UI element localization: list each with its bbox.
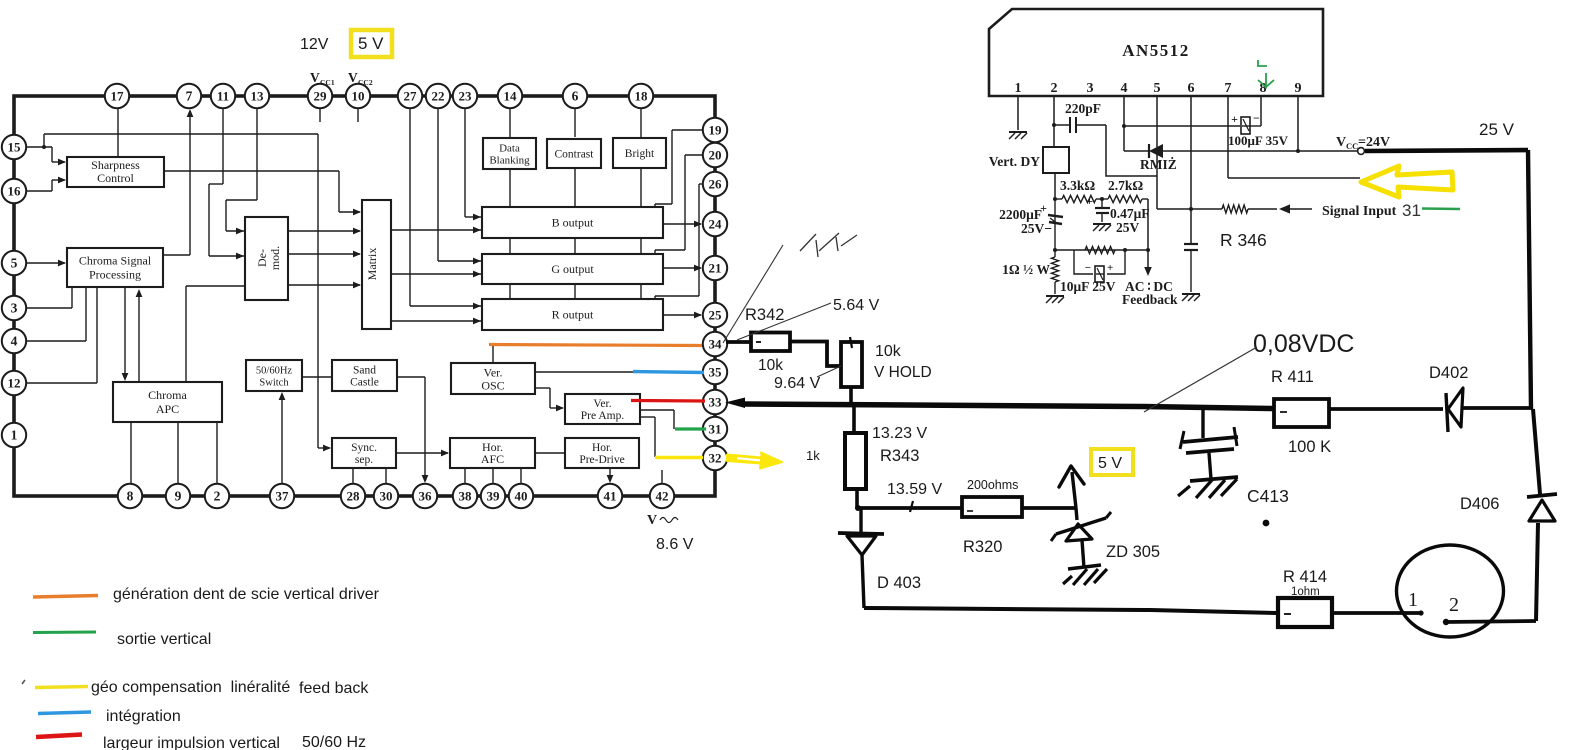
IC pin 15 (2, 135, 26, 159)
svg-text:+: + (1107, 262, 1113, 274)
svg-text:41: 41 (604, 488, 617, 503)
svg-text:100μF 35V: 100μF 35V (1228, 133, 1289, 148)
op-amp IC AN5512 outline (989, 9, 1323, 96)
svg-text:3: 3 (1087, 81, 1094, 96)
block Matrix (362, 200, 391, 329)
svg-text:R 411: R 411 (1271, 368, 1314, 386)
svg-text:5.64 V: 5.64 V (833, 297, 880, 314)
wire pin4 to 100uF (1124, 125, 1240, 127)
svg-text:Processing: Processing (89, 268, 141, 282)
svg-text:R343: R343 (880, 447, 919, 465)
wire pin22 to G output (438, 107, 481, 264)
wire bottom rail to R414 (864, 608, 1277, 613)
svg-text:35: 35 (709, 364, 723, 379)
svg-text:Blanking: Blanking (489, 155, 530, 167)
block R output (482, 299, 663, 330)
IC pin 34 (703, 332, 727, 356)
wire AN pin7 down (1227, 96, 1229, 178)
svg-text:V: V (348, 70, 358, 85)
svg-text:42: 42 (656, 488, 669, 503)
svg-text:200ohms: 200ohms (967, 478, 1018, 492)
svg-text:36: 36 (419, 488, 433, 503)
svg-text:Ver.: Ver. (593, 398, 611, 410)
wire Switch to Sand Castle (302, 376, 332, 378)
wire pin6 to Contrast (574, 107, 576, 137)
wire Sync sep to Hor AFC (396, 450, 449, 457)
marker red pulse-width line pin33 (631, 399, 705, 403)
wire Sand Castle to pin36 (397, 377, 428, 483)
highlight box 5V top (351, 30, 392, 57)
IC pin 16 (2, 179, 26, 203)
svg-text:Bright: Bright (625, 148, 655, 160)
IC pin 10 (346, 84, 370, 108)
block Hor Pre-Drive (565, 438, 639, 468)
IC pin 41 (598, 484, 622, 508)
legend red line (36, 735, 82, 738)
svg-text:Pre-Drive: Pre-Drive (579, 454, 624, 466)
ground AN pin1 (1009, 131, 1027, 133)
diode D403 (838, 508, 884, 608)
block Data Blanking (483, 138, 536, 169)
IC pin 36 (413, 484, 437, 508)
block 50/60Hz Switch (246, 360, 302, 391)
svg-text:ZD 305: ZD 305 (1106, 543, 1160, 561)
potentiometer 10k V HOLD (841, 342, 862, 387)
wire AN pin4 down (1123, 96, 1125, 151)
svg-text:+: + (1231, 112, 1238, 126)
block Ver Pre Amp (565, 394, 640, 424)
wire Chroma APC to De-mod (186, 286, 245, 382)
svg-text:1: 1 (1015, 81, 1022, 96)
wire 220pF to signal node (1106, 125, 1157, 176)
wire AN pin2 down (1053, 96, 1055, 147)
marker blue integration line pin35 (633, 372, 704, 373)
svg-text:largeur impulsion vertical: largeur impulsion vertical (103, 735, 280, 750)
block Bright (613, 138, 666, 168)
svg-text:D402: D402 (1429, 364, 1468, 382)
svg-text:Castle: Castle (350, 377, 379, 389)
svg-text:1Ω ½ W: 1Ω ½ W (1002, 262, 1050, 277)
svg-text:Sharpness: Sharpness (91, 158, 140, 172)
svg-text:12V: 12V (300, 36, 329, 53)
resistor R346 zigzag (1222, 205, 1248, 213)
IC pin 13 (245, 84, 269, 108)
IC pin 24 (703, 212, 727, 236)
IC pin 31 (703, 417, 727, 441)
svg-text:22: 22 (432, 88, 445, 103)
wire CSP to Chroma APC down (122, 287, 129, 381)
wire AN pin5 down (1156, 96, 1158, 209)
svg-text:V HOLD: V HOLD (874, 364, 932, 381)
wire pin14 to Data Blanking (509, 107, 511, 137)
svg-text:25 V: 25 V (1479, 120, 1515, 139)
svg-text:38: 38 (459, 488, 473, 503)
svg-text:50/60Hz: 50/60Hz (256, 366, 293, 377)
svg-text:4: 4 (1121, 81, 1128, 96)
svg-text:20: 20 (709, 147, 722, 162)
svg-text:1: 1 (11, 427, 18, 442)
ink dot artifact (1263, 520, 1270, 527)
svg-text:Chroma Signal: Chroma Signal (79, 254, 152, 268)
legend tick (22, 680, 25, 684)
IC pin 17 (105, 84, 129, 108)
wire pin12 to CSP (25, 287, 97, 383)
wire Chroma APC to CSP up (136, 289, 143, 382)
scribble marks (800, 233, 857, 257)
wire Matrix to G output (391, 271, 481, 278)
svg-text:27: 27 (404, 88, 418, 103)
IC pin 35 (703, 360, 727, 384)
wire pin19 to B output (655, 130, 704, 208)
svg-text:Control: Control (97, 171, 134, 185)
svg-text:RMIŻ: RMIŻ (1140, 157, 1177, 172)
svg-text:5: 5 (11, 255, 18, 270)
svg-text:8: 8 (127, 488, 134, 503)
IC pin 14 (498, 84, 522, 108)
svg-text:3.3kΩ: 3.3kΩ (1060, 178, 1095, 193)
svg-text:V: V (1336, 135, 1346, 150)
capacitor 100uF (1231, 111, 1260, 134)
legend green line (33, 631, 96, 635)
wire pin37 to 50/60Hz Switch (279, 392, 286, 485)
IC pin 39 (481, 484, 505, 508)
svg-text:Ver.: Ver. (484, 366, 503, 380)
wire AN pin9 down (1297, 96, 1299, 151)
svg-text:19: 19 (709, 122, 723, 137)
svg-text:R output: R output (552, 308, 594, 322)
highlight box 5V at ZD305 (1091, 449, 1133, 475)
svg-text:9: 9 (175, 488, 182, 503)
resistor feedback (1085, 246, 1115, 253)
wire Matrix to R output (391, 318, 481, 325)
capacitor 10uF (1085, 262, 1114, 282)
svg-text:100 K: 100 K (1288, 438, 1331, 456)
svg-text:2: 2 (1449, 594, 1459, 616)
wire V-HOLD to node 33 line (849, 387, 853, 407)
svg-text:D406: D406 (1460, 495, 1499, 513)
stub pin10 (357, 107, 359, 122)
svg-text:50/60 Hz: 50/60 Hz (302, 734, 366, 750)
wire pin4 to CSP (25, 287, 86, 341)
wire junction to R320 (857, 506, 962, 510)
svg-text:D 403: D 403 (877, 574, 921, 592)
wire R output to pin25 (663, 312, 702, 319)
IC pin 32 (703, 446, 727, 470)
IC pin 25 (703, 303, 727, 327)
svg-text:13.23 V: 13.23 V (872, 425, 927, 442)
pointer line 5.64V to pin34 (737, 303, 831, 340)
resistor 2.7k (1108, 195, 1142, 202)
yellow arrow left big (1361, 166, 1453, 197)
svg-text:Vert. DY: Vert. DY (989, 154, 1040, 169)
svg-text:Pre Amp.: Pre Amp. (581, 410, 625, 422)
IC pin 27 (398, 84, 422, 108)
wire D402 to right rail (1462, 406, 1533, 410)
wire Ver Pre Amp to pin31 (640, 410, 674, 429)
marker orange sawtooth line pin34 (489, 345, 702, 346)
svg-text:Switch: Switch (259, 378, 289, 389)
block Sand Castle (332, 360, 397, 391)
wire AFC to Hor Pre-Drive (535, 452, 565, 454)
svg-text:8.6 V: 8.6 V (656, 536, 694, 553)
wire Ver Pre Amp to pin33 (640, 400, 704, 402)
IC pin 20 (703, 143, 727, 167)
svg-text:+: + (1086, 194, 1093, 208)
block Chroma APC (113, 382, 222, 422)
IC pin 23 (453, 84, 477, 108)
svg-text:Data: Data (499, 143, 520, 155)
stub Ver OSC top (492, 345, 494, 363)
IC pin 6 (563, 84, 587, 108)
IC pin 28 (341, 484, 365, 508)
svg-text:14: 14 (504, 88, 518, 103)
wire R342 to V-HOLD pot (790, 342, 841, 367)
svg-text:sep.: sep. (355, 454, 373, 466)
green scribble at pin8 (1258, 60, 1274, 87)
wire long top rail to Sync sep (44, 134, 331, 451)
resistor R411 (1274, 399, 1329, 427)
IC pin 3 (2, 296, 26, 320)
wire pin3 to CSP (25, 287, 72, 308)
wire AFC to pin39 (492, 468, 494, 485)
svg-text:G output: G output (551, 262, 594, 276)
wire pin23 to B output (465, 107, 481, 220)
wire pin15 to Sharpness (52, 147, 66, 165)
svg-text:B output: B output (552, 216, 594, 230)
IC pin 2 (205, 484, 229, 508)
capacitor pin6 (1184, 243, 1198, 245)
wire AN pin6 down (1190, 96, 1192, 243)
svg-text:10μF 25V: 10μF 25V (1060, 279, 1116, 294)
legend orange line (33, 596, 98, 598)
wire right rail upper (1528, 150, 1531, 409)
marker green line at 31 (1422, 207, 1460, 210)
svg-text:AN5512: AN5512 (1122, 41, 1190, 60)
svg-text:0,08VDC: 0,08VDC (1253, 330, 1354, 358)
resistor R343 (845, 433, 866, 489)
svg-text:Sync.: Sync. (351, 442, 377, 454)
svg-text:Hor.: Hor. (592, 442, 612, 454)
IC pin 9 (166, 484, 190, 508)
svg-text:25V−: 25V− (1021, 221, 1052, 236)
marker green vertical-out line pin31 (675, 427, 706, 430)
IC pin 40 (509, 484, 533, 508)
svg-text:9.64 V: 9.64 V (774, 375, 821, 392)
svg-text:R342: R342 (745, 306, 784, 324)
svg-text:21: 21 (709, 260, 722, 275)
ground pin6 (1182, 293, 1200, 295)
IC pin 26 (703, 172, 727, 196)
capacitor C413 (1180, 408, 1238, 479)
svg-text:32: 32 (709, 450, 722, 465)
svg-text:R 346: R 346 (1220, 230, 1267, 250)
svg-text:10k: 10k (875, 343, 902, 360)
svg-text:−: − (1253, 111, 1260, 125)
pointer line pin34 upward (723, 245, 783, 343)
svg-text:1: 1 (1408, 589, 1418, 611)
wire pin26 to R output (655, 184, 704, 299)
wire Sharpness to Matrix (164, 171, 361, 215)
svg-text:24: 24 (709, 216, 723, 231)
wire AFC to pin38 (464, 468, 466, 485)
stub pin29 (319, 107, 321, 122)
IC pin 1 (2, 423, 26, 447)
wire pin17 to Sharpness (117, 96, 119, 157)
ground 0.47uF (1093, 223, 1111, 225)
svg-text:39: 39 (487, 488, 501, 503)
wire node to R343 (852, 407, 856, 433)
wire G output to pin21 (663, 265, 702, 272)
svg-text:10: 10 (352, 88, 365, 103)
wire Ver OSC to Ver Pre Amp (535, 388, 564, 411)
svg-text:2: 2 (214, 488, 221, 503)
ground 1ohm (1046, 295, 1064, 297)
svg-text:C413: C413 (1247, 486, 1289, 506)
resistor R342 (751, 333, 790, 352)
block De-mod (245, 217, 288, 300)
wire R320 to ZD305 node (1022, 506, 1077, 510)
IC pin 30 (374, 484, 398, 508)
svg-text:30: 30 (380, 488, 393, 503)
wire APC to pin8 (130, 422, 132, 485)
svg-text:5 V: 5 V (1098, 455, 1122, 472)
wire R346 arrow segment (1248, 208, 1277, 210)
svg-text:12: 12 (8, 375, 21, 390)
wire Ver OSC to pin35 (535, 371, 704, 373)
svg-text:Sand: Sand (353, 365, 376, 377)
IC pin 5 (2, 251, 26, 275)
svg-text:R 414: R 414 (1283, 568, 1327, 586)
wire Pre-Drive to pin41 (607, 468, 614, 483)
svg-text:2.7kΩ: 2.7kΩ (1108, 178, 1143, 193)
IC pin 38 (453, 484, 477, 508)
svg-text:2: 2 (1051, 81, 1058, 96)
capacitor 2200uF (1040, 201, 1063, 224)
IC pin 12 (2, 371, 26, 395)
resistor 3.3k (1062, 195, 1096, 202)
block Ver OSC (451, 363, 535, 394)
block G output (482, 254, 663, 284)
thick wire Vcc 24V rail (1365, 150, 1528, 151)
svg-text:5: 5 (1154, 81, 1161, 96)
svg-text:3: 3 (11, 300, 18, 315)
thick wire node 0.08VDC (742, 404, 1274, 409)
svg-text:R320: R320 (963, 538, 1002, 556)
svg-text:9: 9 (1295, 81, 1302, 96)
svg-text:31: 31 (1402, 201, 1421, 220)
svg-text:6: 6 (1188, 81, 1195, 96)
block Sync sep (332, 438, 396, 468)
wire pin34 to R342 (726, 340, 751, 344)
signal input line (1157, 208, 1222, 210)
svg-text:25: 25 (709, 307, 723, 322)
svg-text:Matrix: Matrix (365, 248, 379, 281)
svg-text:33: 33 (709, 394, 723, 409)
pointer line 9.64V (817, 366, 841, 377)
wire up-arrow 5V supply (1072, 472, 1076, 508)
resistor R414 (1278, 598, 1332, 627)
wire pin2 to APC (216, 422, 218, 485)
wire AFC to pin40 (520, 468, 522, 485)
svg-text:Chroma: Chroma (148, 388, 187, 402)
svg-text:15: 15 (8, 139, 22, 154)
wire Ver Pre Amp to pin32 (640, 417, 655, 457)
block Vert DY (1043, 147, 1069, 173)
IC TDA-series jungle chip outline (14, 96, 715, 496)
bus Data Blanking down (509, 169, 511, 299)
yellow arrow at pin32 (727, 453, 782, 469)
node 3.3k-2.7k (1100, 197, 1104, 201)
wire CSP to pin7 (163, 109, 193, 255)
svg-text:1k: 1k (806, 448, 820, 463)
svg-text:V: V (310, 70, 320, 85)
svg-text:sortie vertical: sortie vertical (117, 631, 211, 648)
svg-text:4: 4 (11, 333, 18, 348)
wire Sync sep to pin28 (352, 468, 354, 485)
terminal Vcc open circle (1358, 148, 1365, 155)
svg-text:16: 16 (8, 183, 22, 198)
wire B output to pin24 (663, 221, 702, 228)
wire pin20 to G output (655, 155, 704, 254)
arrowhead at pin33 thick node (725, 398, 745, 409)
node yoke pin2 (1443, 619, 1449, 625)
resistor 1ohm half W (1054, 250, 1056, 257)
svg-text:23: 23 (459, 88, 473, 103)
wire De-mod to Matrix c (288, 282, 361, 289)
svg-text:7: 7 (1225, 81, 1232, 96)
wire R414 to yoke pin1 (1332, 611, 1419, 615)
svg-text:7: 7 (186, 88, 193, 103)
wire De-mod to Matrix b (288, 251, 361, 258)
IC pin 22 (426, 84, 450, 108)
diode RMIZ (1148, 144, 1150, 158)
svg-text:−: − (1085, 262, 1091, 274)
wire Matrix to B output (391, 227, 481, 234)
svg-text:31: 31 (709, 421, 722, 436)
wire APC to pin9 (177, 422, 179, 485)
marker yellow feedback line pin32 (655, 456, 703, 460)
IC pin 33 (703, 390, 727, 414)
arrow AC DC feedback (1147, 250, 1149, 268)
IC pin 37 (270, 484, 294, 508)
svg-text:26: 26 (709, 176, 723, 191)
diode D402 (1446, 388, 1463, 432)
svg-text:13.59 V: 13.59 V (887, 481, 942, 498)
wire VertDY to node (1054, 173, 1056, 199)
svg-text:25V: 25V (1116, 220, 1140, 235)
svg-text:CC: CC (1346, 141, 1358, 151)
IC pin 4 (2, 329, 26, 353)
block Hor AFC (450, 438, 535, 468)
stub pin42 (661, 470, 663, 485)
wire pin9 to Vcc terminal (1298, 150, 1357, 152)
wire pin5 to CSP (25, 260, 66, 267)
resistor R320 200ohms (962, 497, 1022, 517)
svg-text:De-mod.: De-mod. (255, 246, 282, 270)
svg-text:220pF: 220pF (1065, 101, 1101, 116)
wire De-mod to Matrix a (288, 228, 361, 235)
IC pin 21 (703, 256, 727, 280)
svg-text:17: 17 (111, 88, 125, 103)
svg-text:5 V: 5 V (358, 34, 384, 53)
svg-text:CC1: CC1 (320, 78, 335, 87)
capacitor 220pF (1054, 117, 1106, 133)
wire pin27 to R output (410, 107, 481, 309)
svg-text:APC: APC (156, 402, 179, 416)
block Chroma Signal Processing (67, 248, 163, 287)
ground ZD305 (1063, 565, 1107, 585)
wire right rail mid (1533, 409, 1540, 494)
